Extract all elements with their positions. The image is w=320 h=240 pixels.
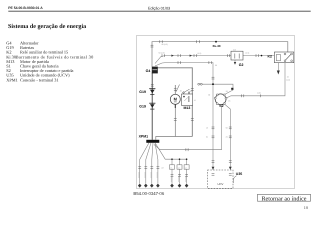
svg-text:XPM1: XPM1 [6,77,17,82]
svg-text:G19: G19 [139,90,146,94]
svg-text:16: 16 [194,99,196,102]
svg-text:XPM1: XPM1 [139,135,149,139]
svg-text:31: 31 [206,136,208,139]
svg-text:PE 54.00-B-0030-01 A: PE 54.00-B-0030-01 A [8,6,43,10]
svg-text:Sistema de geração de energia: Sistema de geração de energia [8,23,86,30]
svg-text:50: 50 [215,64,217,67]
svg-text:31: 31 [226,136,228,139]
svg-text:Edição 01/03: Edição 01/03 [148,6,170,10]
svg-text:B54.00-0347-06: B54.00-0347-06 [133,191,164,196]
svg-text:30: 30 [208,93,210,96]
svg-text:50: 50 [190,90,192,93]
svg-text:(2.5): (2.5) [198,52,202,55]
svg-text:(1.0): (1.0) [257,91,261,94]
svg-text:Conexão - terminal 31: Conexão - terminal 31 [20,77,59,82]
svg-text:15: 15 [287,76,289,79]
svg-text:UCV: UCV [218,182,224,186]
svg-text:(2.5): (2.5) [246,52,250,55]
svg-text:KL.30: KL.30 [213,44,221,48]
svg-text:30 (2.5): 30 (2.5) [162,43,169,46]
svg-text:15: 15 [206,126,208,129]
svg-text:Retornar ao índice: Retornar ao índice [261,195,306,202]
svg-text:(1.0): (1.0) [286,79,290,82]
svg-text:50: 50 [226,90,228,93]
svg-text:50 (2.5): 50 (2.5) [159,52,166,55]
svg-text:15: 15 [228,99,230,102]
svg-text:S2: S2 [219,104,223,108]
svg-text:10: 10 [304,205,308,210]
svg-text:G2: G2 [239,63,244,67]
svg-text:M13: M13 [184,106,191,110]
svg-text:G4: G4 [146,69,151,73]
svg-text:50: 50 [226,126,228,129]
svg-text:G19: G19 [139,104,146,108]
svg-text:K2: K2 [268,54,273,58]
svg-text:U35: U35 [236,172,242,176]
svg-text:30: 30 [180,90,182,93]
